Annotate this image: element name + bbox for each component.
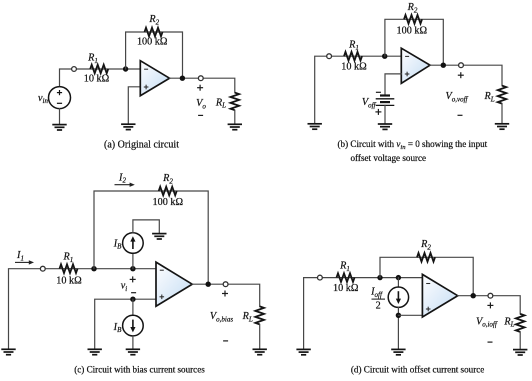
wire battery to ground (b) [384,105,386,123]
fraction bar (d) [372,298,386,300]
resistor R1 (d) [337,273,355,282]
resistor R2 (c) [159,187,177,196]
ground at far left (c) [1,349,15,354]
minus sign above battery (b) [376,91,381,93]
node feedback takeoff (d) [377,275,382,280]
svg-text:offset voltage source: offset voltage source [351,153,427,163]
svg-text:10 kΩ: 10 kΩ [333,283,359,294]
ground for IB top (c) [152,234,166,239]
load resistor RL (d) [516,314,525,332]
plus sign output (c) [222,291,228,297]
resistor R1 (a) [90,65,108,74]
wire node to bias source IB bottom (c) [132,299,134,315]
non-inverting input wire to battery (b) [385,74,401,96]
svg-text:10 kΩ: 10 kΩ [84,74,110,85]
wire RL to ground (c) [259,324,261,349]
svg-text:(c) Circuit with bias current: (c) Circuit with bias current sources [74,365,205,375]
circuit (c): input wire [9,269,157,349]
resistor R2 (a) [145,28,163,37]
svg-text:(d) Circuit with offset curren: (d) Circuit with offset current source [351,365,484,375]
ground below offset source (d) [391,349,405,354]
svg-text:2: 2 [376,301,381,312]
circuit (d): input wire [304,278,423,349]
battery Voff (b) [376,96,395,106]
node at non-inverting input (c) [130,297,135,302]
output terminal (c) [223,282,228,287]
output wire (c) [192,284,260,306]
non-inverting input wire to ground (a) [128,87,140,124]
ground below RL (a) [228,124,242,129]
svg-text:100 kΩ: 100 kΩ [153,197,184,208]
ground below battery (b) [378,124,392,129]
resistor R1 (c) [60,264,78,273]
node at inverting input (a) [123,66,128,71]
plus sign below battery (b) [375,109,381,115]
ground below RL (c) [253,349,267,354]
resistor R2 (d) [417,253,435,262]
ground at non-inverting input (a) [121,124,135,129]
plus sign output (b) [458,72,464,78]
circuit (b): input wire [315,56,402,123]
output node (c) [206,282,211,287]
svg-text:10 kΩ: 10 kΩ [341,62,367,73]
minus sign output (b) [458,114,463,116]
svg-text:(a) Original circuit: (a) Original circuit [104,139,179,150]
op-amp (d) [422,274,457,317]
output wire (b) [430,65,502,85]
ground at input (b) [308,124,322,129]
ground below RL (d) [513,350,527,355]
output wire (a) [170,78,235,92]
op-amp (b) [401,48,430,83]
output terminal (a) [198,76,203,81]
wire RL to ground (a) [234,110,236,124]
resistor R1 (b) [344,52,362,61]
node A feedback takeoff (c) [91,266,96,271]
node B bias source top (c) [130,266,135,271]
current arrow I1 (c) [15,261,31,263]
minus sign output (c) [223,340,228,342]
ground below IB bottom (c) [126,349,140,354]
non-inverting input wire (c) [95,299,156,349]
wire IB top to ground (c) [133,220,159,233]
output wire (d) [458,296,521,314]
output node (a) [180,76,185,81]
input terminal (b) [327,54,332,59]
input terminal (d) [318,275,323,280]
svg-text:10 kΩ: 10 kΩ [56,275,82,286]
minus sign of vi (c) [131,292,136,294]
plus sign output (a) [197,85,203,91]
voltage source vin [49,87,71,109]
output terminal (b) [459,63,464,68]
wire source to ground (a) [59,109,61,125]
wire node B to bias source IB top (c) [132,253,134,269]
wire node to offset source (d) [397,278,399,287]
svg-text:100 kΩ: 100 kΩ [137,37,168,48]
plus sign of vi (c) [130,276,136,282]
plus sign output (d) [487,302,493,308]
output node (b) [441,62,446,67]
op-amp (a) [140,61,169,96]
ground at input (d) [296,349,310,354]
wire IB bottom to ground (c) [132,336,134,349]
load resistor RL (a) [231,93,240,111]
feedback wire (d) [380,257,473,295]
node at inverting input (b) [382,54,387,59]
wire RL to ground (d) [519,332,521,349]
current source IB top (c) [123,233,144,254]
svg-text:100 kΩ: 100 kΩ [397,26,428,37]
node at non-inverting input (d) [396,313,401,318]
output node (d) [471,293,476,298]
minus sign output (d) [488,341,493,343]
feedback wire (a) [126,32,183,78]
input terminal (a) [72,67,77,72]
input terminal (c) [40,266,45,271]
load resistor RL (c) [255,306,264,324]
wire RL to ground (b) [501,104,503,124]
minus sign output (a) [198,114,203,116]
output terminal (d) [488,293,493,298]
ground below RL (b) [495,124,509,129]
current arrow I2 (c) [115,184,132,186]
load resistor RL (b) [498,86,507,104]
ground below non-inverting branch (c) [88,349,102,354]
resistor R2 (b) [404,15,422,24]
current source Ioff/2 (d) [388,287,408,307]
feedback wire (b) [385,19,443,65]
ground below vin [52,125,66,130]
feedback wire (c) [94,191,208,284]
current source IB bottom (c) [123,315,144,336]
wire offset source to non-inverting input (d) [397,307,399,349]
node offset source top (d) [396,275,401,280]
op-amp (c) [156,262,192,306]
non-inverting input wire (d) [398,314,422,316]
circuit (a): wire from source to op-amp inverting input [60,69,141,87]
